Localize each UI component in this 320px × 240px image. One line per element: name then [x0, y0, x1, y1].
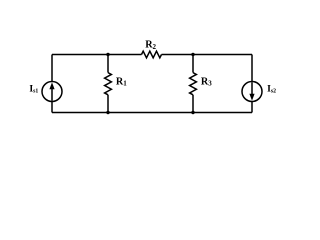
svg-text:R3: R3: [201, 77, 212, 88]
svg-text:Is2: Is2: [267, 84, 276, 95]
svg-text:Is1: Is1: [29, 84, 38, 95]
svg-text:R1: R1: [116, 77, 127, 88]
svg-text:R2: R2: [145, 40, 156, 51]
